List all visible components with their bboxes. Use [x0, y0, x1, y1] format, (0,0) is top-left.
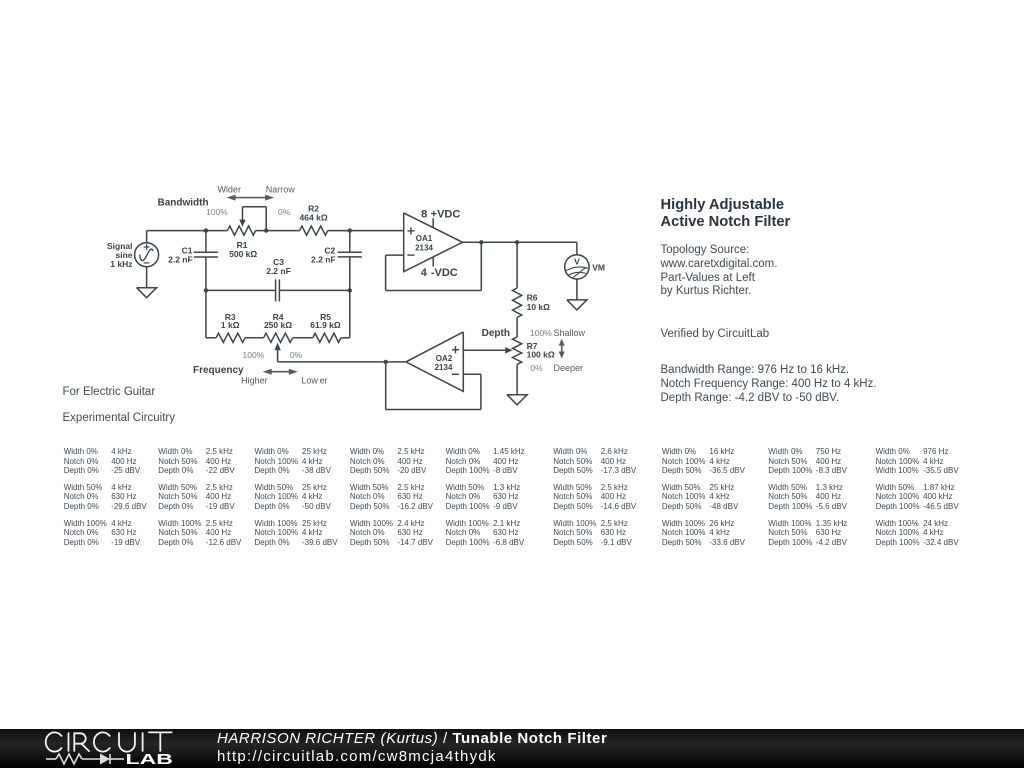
- svg-text:Depth: Depth: [482, 328, 510, 339]
- svg-text:100%: 100%: [243, 350, 265, 360]
- svg-text:61.9 kΩ: 61.9 kΩ: [310, 320, 341, 330]
- svg-text:Shallow: Shallow: [554, 328, 586, 338]
- svg-text:+VDC: +VDC: [431, 208, 461, 220]
- svg-text:100%: 100%: [530, 328, 552, 338]
- svg-text:10 kΩ: 10 kΩ: [527, 302, 551, 312]
- svg-text:Wider: Wider: [217, 184, 241, 194]
- svg-text:Higher: Higher: [241, 376, 268, 386]
- svg-text:1 kΩ: 1 kΩ: [221, 320, 240, 330]
- svg-text:1 kHz: 1 kHz: [110, 259, 132, 269]
- svg-text:V: V: [574, 257, 580, 267]
- svg-text:2134: 2134: [435, 363, 453, 372]
- svg-text:OA2: OA2: [436, 354, 453, 363]
- svg-text:2.2 nF: 2.2 nF: [266, 266, 291, 276]
- svg-text:4: 4: [421, 267, 428, 279]
- svg-text:Bandwidth: Bandwidth: [158, 198, 209, 209]
- svg-text:Narrow: Narrow: [266, 184, 296, 194]
- svg-text:0%: 0%: [530, 363, 543, 373]
- svg-text:250 kΩ: 250 kΩ: [264, 320, 292, 330]
- svg-text:Deeper: Deeper: [554, 363, 584, 373]
- svg-text:-VDC: -VDC: [431, 267, 458, 279]
- svg-text:464 kΩ: 464 kΩ: [300, 213, 328, 223]
- svg-text:8: 8: [421, 208, 427, 220]
- svg-text:Frequency: Frequency: [193, 365, 244, 376]
- svg-text:0%: 0%: [290, 350, 303, 360]
- svg-text:2.2 nF: 2.2 nF: [168, 255, 193, 265]
- svg-text:100 kΩ: 100 kΩ: [527, 350, 555, 360]
- svg-text:0%: 0%: [278, 207, 291, 217]
- svg-text:OA1: OA1: [416, 234, 433, 243]
- svg-text:2134: 2134: [415, 243, 433, 252]
- svg-text:500 kΩ: 500 kΩ: [229, 249, 257, 259]
- svg-text:2.2 nF: 2.2 nF: [311, 255, 336, 265]
- svg-text:VM: VM: [592, 262, 605, 272]
- svg-text:LAB: LAB: [126, 751, 174, 768]
- svg-text:Low er: Low er: [301, 376, 327, 386]
- svg-text:100%: 100%: [206, 207, 228, 217]
